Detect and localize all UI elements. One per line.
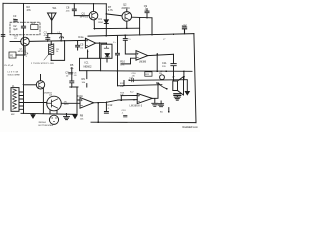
capacitor C12: [104, 102, 108, 113]
svg-text:IC1b: IC1b: [78, 94, 84, 98]
wire Q1t emitter: [93, 20, 95, 29]
capacitor C2 plates: [21, 26, 25, 28]
svg-text:RadioElf.com: RadioElf.com: [183, 125, 198, 129]
wire R1 to bus: [16, 46, 25, 55]
connector pins: [19, 92, 24, 109]
svg-text:2 TURN STRIP LINE: 2 TURN STRIP LINE: [31, 63, 54, 65]
svg-text:SOLID WIRE: SOLID WIRE: [8, 74, 21, 76]
wire left border: [2, 3, 4, 110]
wire y=71 right dots-verticals: [165, 70, 167, 72]
diode D1: [104, 20, 108, 23]
svg-text:LM386: LM386: [139, 61, 147, 63]
wire x=117.5 branch: [116, 36, 120, 86]
wire Q3 emitter: [42, 88, 44, 113]
svg-text:1µF: 1µF: [13, 27, 18, 31]
wire T2 input from bus: [123, 35, 136, 54]
inset circle bottom view: [49, 115, 58, 124]
resistor R11 box: [145, 72, 152, 76]
ground arrow 2: [31, 115, 35, 118]
capacitor C1: [46, 34, 50, 41]
op-amp IC1b: [80, 98, 94, 109]
ground stack 1: [152, 99, 158, 107]
jack J2: [160, 75, 165, 80]
wire IC1b output: [94, 100, 118, 103]
battery terminal +9V stub: [182, 27, 186, 34]
wire branch x=157: [156, 54, 158, 72]
ground symbol x=66.5: [64, 114, 70, 120]
svg-text:SPKR: SPKR: [157, 104, 163, 106]
wire Q1t collector: [93, 4, 95, 12]
svg-text:47k: 47k: [27, 8, 32, 12]
dashed shield box: [10, 22, 40, 35]
transistor Q2: [122, 12, 132, 22]
wire y=87 horizontal: [70, 86, 78, 88]
wire main supply bus B: [88, 34, 194, 37]
wire Q1t base: [74, 15, 89, 17]
transistor Q1: [21, 37, 30, 46]
capacitor C7: [70, 68, 74, 87]
capacitor C3 plates: [14, 20, 17, 22]
op-amp IC1a: [85, 38, 95, 48]
junction stub: [168, 108, 170, 112]
wire Q3 collector: [40, 75, 42, 81]
op-amp T2: [136, 51, 148, 61]
wire IC1a output: [96, 43, 107, 44]
crystal filter box Y1: [101, 44, 112, 58]
wire Q3 base: [24, 84, 37, 86]
capacitor C6 plates: [69, 72, 73, 74]
wire x=106 vertical: [105, 4, 107, 36]
svg-text:C11: C11: [162, 61, 167, 65]
wire x=152: [151, 18, 153, 35]
svg-text:1N34: 1N34: [98, 22, 104, 24]
svg-text:IC1: IC1: [85, 60, 90, 64]
wire Q4 source leads: [50, 110, 57, 113]
svg-text:IC1a: IC1a: [78, 35, 84, 39]
wire speaker drops: [174, 71, 184, 77]
wire vertical bus x=23.5: [23, 4, 25, 114]
leader line: [44, 55, 48, 60]
wire IC1b lower input: [61, 102, 80, 104]
svg-text:D1: D1: [99, 17, 103, 21]
wire top supply rail: [3, 2, 106, 5]
resistor R1 box: [9, 52, 16, 58]
svg-text:C8: C8: [66, 6, 70, 10]
wire to rail: [97, 103, 99, 123]
wire to IC2: [118, 99, 137, 101]
svg-text:C5: C5: [80, 43, 84, 47]
resistor R4 box: [31, 25, 38, 30]
svg-text:NE602: NE602: [84, 64, 92, 68]
svg-text:MPF102: MPF102: [80, 17, 89, 19]
svg-text:C7: C7: [65, 70, 69, 74]
wire IC2 upper input: [121, 96, 137, 101]
wire into mixer box: [87, 50, 89, 58]
wire Q4 gate: [24, 102, 47, 104]
wire feedback y=85: [118, 85, 162, 86]
ground arrow: [73, 115, 77, 118]
wire bottom rail A: [21, 113, 77, 114]
capacitor C11: [171, 54, 176, 71]
op-amp IC2: [137, 93, 152, 103]
svg-text:C5: 47 pF: C5: 47 pF: [4, 65, 14, 67]
svg-text:R5: R5: [70, 63, 74, 67]
svg-text:Q1: Q1: [82, 12, 86, 16]
svg-text:+9V: +9V: [182, 24, 187, 28]
svg-text:4.7k: 4.7k: [108, 8, 114, 12]
svg-text:C3: C3: [13, 14, 17, 18]
transistor Q1t: [89, 11, 98, 20]
antenna: [48, 13, 57, 34]
wire long rail y=71: [101, 70, 192, 73]
wire T2 lower input: [121, 58, 136, 64]
wire into IC1b: [76, 87, 78, 113]
ground under speaker: [174, 96, 180, 100]
svg-text:L1: 3 T #18: L1: 3 T #18: [8, 72, 19, 74]
svg-text:C12: C12: [108, 103, 113, 107]
wire x=139.6: [139, 18, 141, 35]
wire to C5 node: [51, 41, 64, 61]
capacitor C13 plates: [124, 115, 128, 117]
svg-text:PH: PH: [159, 73, 162, 75]
capacitor C14 plates: [132, 79, 134, 82]
wire right border: [194, 34, 196, 123]
wire y=28.6 horizontal: [94, 27, 139, 29]
mosfet Q4: [47, 96, 62, 111]
strip line coil: [48, 44, 53, 54]
wire bus segment A: [30, 40, 86, 41]
capacitor on left border: [1, 35, 5, 37]
svg-text:Q2: Q2: [123, 3, 127, 7]
capacitor C15 plates: [174, 94, 181, 96]
wire Q2 base: [106, 14, 122, 16]
wire x=124: [123, 81, 125, 86]
mixer IC box: [80, 58, 101, 70]
svg-text:R9: R9: [82, 77, 86, 81]
wire Q2 output: [132, 16, 152, 19]
svg-text:C4: C4: [25, 51, 29, 55]
capacitor C5: [76, 41, 80, 51]
svg-text:C*: C*: [163, 39, 166, 41]
svg-text:BOTTOM VIEW: BOTTOM VIEW: [39, 125, 54, 127]
wire Q1 base: [10, 41, 21, 43]
svg-text:R10: R10: [120, 60, 125, 64]
svg-text:R8: R8: [80, 113, 84, 117]
wire x=187 arrow: [186, 80, 188, 92]
capacitor C9: [145, 9, 149, 18]
wire T2 output: [148, 54, 174, 55]
inductor L1: [60, 34, 62, 37]
wire antenna tank top: [48, 33, 61, 35]
svg-text:2N3904: 2N3904: [39, 122, 47, 124]
resistor R9 lead: [86, 71, 88, 87]
connector J1: [11, 88, 19, 112]
wire y=80: [129, 79, 187, 82]
speaker: [173, 81, 178, 91]
ground stack 2: [159, 101, 164, 107]
wire Q2 collector stub: [126, 9, 128, 11]
wire Q2 emitter: [126, 21, 128, 28]
svg-text:8Ω: 8Ω: [160, 110, 163, 113]
svg-text:C1: C1: [44, 30, 48, 34]
transistor Q3: [36, 81, 44, 89]
svg-text:R4: R4: [32, 21, 36, 25]
svg-text:1k: 1k: [56, 51, 58, 53]
wire IC2 out to jack: [152, 83, 158, 98]
svg-text:W1: W1: [53, 6, 57, 10]
svg-text:2N3904: 2N3904: [122, 8, 131, 10]
wire C8 branch: [72, 4, 76, 16]
svg-text:MIC: MIC: [11, 114, 15, 116]
wire bottom rail B: [91, 121, 196, 123]
svg-text:LM386N-3: LM386N-3: [130, 105, 143, 107]
